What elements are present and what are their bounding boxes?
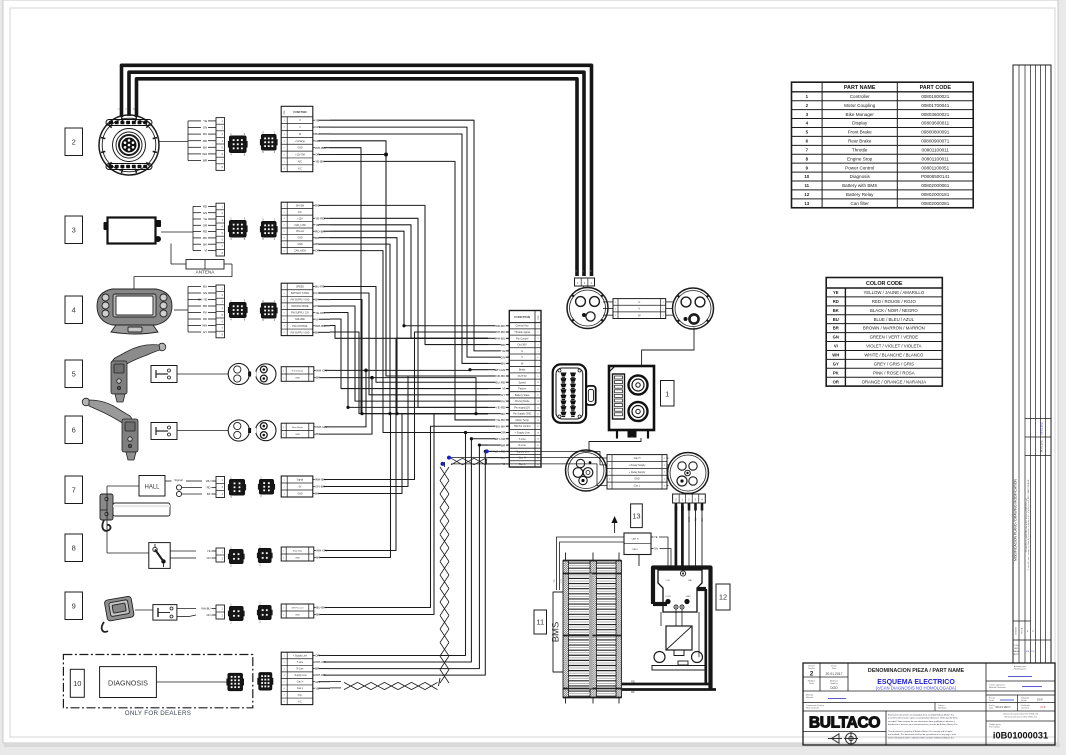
svg-text:GREEN / VERT / VERDE: GREEN / VERT / VERDE bbox=[870, 335, 919, 340]
svg-text:N.C.: N.C. bbox=[298, 168, 303, 170]
svg-text:Driving Mode: Driving Mode bbox=[515, 400, 530, 403]
svg-text:YE-BK: YE-BK bbox=[496, 418, 506, 422]
svg-text:U: U bbox=[574, 270, 578, 272]
svg-text:FECHA: FECHA bbox=[1021, 627, 1024, 634]
svg-text:WH: WH bbox=[832, 353, 839, 358]
svg-text:5V: 5V bbox=[299, 487, 302, 489]
svg-text:(c/CAN DIAGNOSIS NO HOMOLOGADA: (c/CAN DIAGNOSIS NO HOMOLOGADA) bbox=[876, 686, 957, 691]
svg-text:VIOLET / VIOLET / VIOLETA: VIOLET / VIOLET / VIOLETA bbox=[866, 344, 922, 349]
svg-text:+ Relay Supply: + Relay Supply bbox=[629, 471, 646, 474]
svg-text:2: 2 bbox=[664, 465, 665, 467]
svg-text:BROWN / MARRON / MARRON: BROWN / MARRON / MARRON bbox=[863, 326, 925, 331]
svg-text:PK: PK bbox=[203, 311, 207, 315]
svg-text:Drawn: Drawn bbox=[1021, 700, 1027, 702]
svg-text:Hardness: Hardness bbox=[938, 708, 947, 710]
svg-text:Can L: Can L bbox=[634, 485, 641, 488]
svg-text:SPEED: SPEED bbox=[296, 286, 304, 288]
svg-text:11: 11 bbox=[536, 618, 544, 627]
svg-text:36V-SW: 36V-SW bbox=[296, 205, 305, 207]
svg-text:3: 3 bbox=[537, 338, 538, 340]
svg-text:7: 7 bbox=[537, 363, 538, 365]
svg-text:GN: GN bbox=[203, 291, 208, 295]
svg-text:Modif by: Modif by bbox=[830, 683, 838, 685]
svg-text:RED / ROUGE / ROJO: RED / ROUGE / ROJO bbox=[872, 299, 917, 304]
svg-text:SW Pw cont: SW Pw cont bbox=[292, 606, 304, 609]
svg-text:-BAT: -BAT bbox=[688, 579, 693, 582]
svg-text:+12V SW: +12V SW bbox=[295, 155, 306, 157]
svg-text:VI: VI bbox=[502, 387, 505, 391]
svg-text:GN: GN bbox=[833, 335, 839, 340]
svg-text:CAN L: CAN L bbox=[632, 548, 639, 551]
svg-text:GN: GN bbox=[206, 556, 210, 560]
svg-text:6: 6 bbox=[537, 357, 538, 359]
svg-text:DGO: DGO bbox=[1037, 698, 1043, 702]
svg-text:U: U bbox=[638, 300, 640, 304]
svg-text:VERSION: VERSION bbox=[1016, 626, 1018, 635]
svg-text:MODIFICACION PLANO / DRAWING M: MODIFICACION PLANO / DRAWING MODIFICATIO… bbox=[1014, 478, 1018, 560]
svg-text:y contiene informacion sujeta: y contiene informacion sujeta a la propi… bbox=[888, 717, 959, 720]
svg-text:CAN H: CAN H bbox=[632, 538, 639, 541]
svg-text:PW SUPPLY GND: PW SUPPLY GND bbox=[291, 300, 310, 302]
svg-text:Engine Stop: Engine Stop bbox=[847, 156, 872, 161]
svg-text:2: 2 bbox=[609, 465, 610, 467]
svg-text:10: 10 bbox=[804, 174, 809, 179]
svg-text:5: 5 bbox=[609, 485, 610, 487]
svg-text:Diagnosis: Diagnosis bbox=[850, 174, 871, 179]
svg-text:Pw supply12V: Pw supply12V bbox=[514, 406, 530, 409]
svg-text:4: 4 bbox=[609, 479, 610, 481]
svg-text:HALL: HALL bbox=[144, 485, 160, 491]
svg-text:Material/Treatment: Material/Treatment bbox=[989, 686, 1006, 689]
svg-text:00800900071: 00800900071 bbox=[921, 139, 950, 144]
svg-text:2: 2 bbox=[72, 137, 76, 146]
svg-text:00801800021: 00801800021 bbox=[921, 94, 950, 99]
svg-text:Throttle signal: Throttle signal bbox=[514, 331, 530, 334]
svg-text:2: 2 bbox=[537, 332, 538, 334]
svg-text:00801100051: 00801100051 bbox=[921, 165, 949, 170]
svg-text:20.01.2017: 20.01.2017 bbox=[826, 672, 843, 676]
svg-text:4: 4 bbox=[537, 344, 538, 346]
svg-text:3: 3 bbox=[72, 225, 76, 234]
svg-text:not be released to other s wit: not be released to other s without writt… bbox=[888, 736, 955, 739]
svg-text:El presente documento es propi: El presente documento es propiedad de la… bbox=[888, 714, 955, 717]
svg-text:13: 13 bbox=[804, 201, 809, 206]
svg-text:CODE: CODE bbox=[1014, 645, 1020, 647]
svg-text:PW SUPPLY 12V: PW SUPPLY 12V bbox=[291, 313, 309, 315]
svg-text:1: 1 bbox=[664, 458, 665, 460]
svg-text:00802000181: 00802000181 bbox=[921, 192, 950, 197]
svg-text:Throttle: Throttle bbox=[852, 147, 868, 152]
svg-text:PINK / ROSE / ROSA: PINK / ROSE / ROSA bbox=[873, 370, 915, 375]
svg-text:N.C.: N.C. bbox=[298, 695, 303, 697]
svg-text:DIAGNOSIS: DIAGNOSIS bbox=[108, 679, 148, 688]
svg-text:OUT 5V: OUT 5V bbox=[518, 375, 527, 378]
svg-text:BU-RD: BU-RD bbox=[496, 380, 507, 384]
svg-text:- Supply Line: - Supply Line bbox=[293, 675, 307, 677]
svg-text:VI: VI bbox=[834, 344, 838, 349]
svg-text:BMS: BMS bbox=[551, 622, 562, 643]
svg-text:SW Pw control: SW Pw control bbox=[514, 425, 531, 428]
svg-text:BU: BU bbox=[501, 362, 505, 366]
svg-text:3: 3 bbox=[609, 472, 610, 474]
svg-text:Can L: Can L bbox=[297, 688, 304, 690]
svg-text:WHITE / BLANCHE / BLANCO: WHITE / BLANCHE / BLANCO bbox=[864, 353, 924, 358]
svg-text:YELLOW / JAUNE / AMARILLO: YELLOW / JAUNE / AMARILLO bbox=[864, 290, 925, 295]
svg-text:RD: RD bbox=[501, 343, 506, 347]
svg-text:36V-out: 36V-out bbox=[296, 230, 304, 233]
svg-text:OR-BK: OR-BK bbox=[495, 374, 506, 378]
svg-text:Can H: Can H bbox=[519, 457, 526, 460]
svg-text:4: 4 bbox=[664, 479, 665, 481]
svg-text:GND: GND bbox=[297, 494, 302, 496]
svg-text:distribucion a terceros sin el: distribucion a terceros sin el permiso p… bbox=[888, 723, 958, 726]
svg-text:+ Supply Line: + Supply Line bbox=[293, 655, 308, 657]
svg-text:GN: GN bbox=[203, 211, 208, 215]
svg-text:00803600011: 00803600011 bbox=[921, 121, 949, 126]
svg-text:NAME: NAME bbox=[1014, 650, 1020, 653]
svg-text:1: 1 bbox=[609, 458, 610, 460]
svg-text:5: 5 bbox=[72, 369, 76, 378]
svg-text:Control Key: Control Key bbox=[516, 325, 530, 328]
svg-text:+Vcharge: +Vcharge bbox=[295, 140, 306, 143]
svg-text:BU: BU bbox=[833, 317, 839, 322]
svg-text:GN: GN bbox=[654, 547, 658, 551]
svg-text:YE: YE bbox=[203, 217, 207, 221]
svg-text:BU-BK: BU-BK bbox=[496, 424, 506, 428]
svg-text:10: 10 bbox=[537, 382, 539, 384]
svg-text:PART CODE: PART CODE bbox=[920, 85, 952, 91]
svg-text:+OUT: +OUT bbox=[665, 596, 672, 598]
svg-text:YE: YE bbox=[207, 549, 211, 553]
svg-text:WH: WH bbox=[206, 479, 211, 483]
svg-text:10: 10 bbox=[73, 679, 81, 688]
svg-text:Motor Temp: Motor Temp bbox=[516, 419, 530, 422]
svg-text:18: 18 bbox=[537, 432, 539, 434]
svg-text:9: 9 bbox=[72, 601, 76, 610]
svg-text:YE: YE bbox=[553, 579, 556, 583]
svg-text:YE: YE bbox=[501, 349, 505, 353]
svg-text:PIN: PIN bbox=[538, 315, 540, 319]
svg-text:P0806500141: P0806500141 bbox=[921, 174, 950, 179]
svg-text:Battery State: Battery State bbox=[515, 394, 530, 397]
svg-text:BK: BK bbox=[203, 242, 207, 246]
svg-text:RD-BK: RD-BK bbox=[496, 324, 507, 328]
svg-text:V: V bbox=[638, 307, 640, 311]
svg-text:R-Line: R-Line bbox=[297, 669, 304, 671]
svg-text:Pw Control: Pw Control bbox=[516, 337, 529, 340]
svg-text:BR: BR bbox=[833, 326, 839, 331]
svg-text:12: 12 bbox=[537, 395, 539, 397]
svg-text:BLUE / BLEU / AZUL: BLUE / BLEU / AZUL bbox=[874, 317, 915, 322]
svg-text:BLACK / NOIR / NEGRO: BLACK / NOIR / NEGRO bbox=[870, 308, 918, 313]
svg-text:Out 36V: Out 36V bbox=[518, 344, 528, 347]
svg-text:T-Line: T-Line bbox=[297, 662, 304, 664]
svg-text:Pw Supply GND: Pw Supply GND bbox=[513, 413, 531, 416]
svg-text:BK: BK bbox=[631, 690, 635, 694]
svg-text:Can H: Can H bbox=[634, 457, 641, 460]
svg-text:FUNCTION: FUNCTION bbox=[514, 315, 530, 319]
svg-text:Front Brake: Front Brake bbox=[848, 130, 872, 135]
svg-text:GN: GN bbox=[501, 355, 506, 359]
svg-text:BK: BK bbox=[203, 236, 207, 240]
svg-text:sociedad. Todo receptor de est: sociedad. Todo receptor de este document… bbox=[888, 720, 956, 723]
svg-text:+ Power Supply: + Power Supply bbox=[629, 464, 647, 467]
svg-text:V: V bbox=[125, 108, 129, 110]
svg-text:Bike Manager: Bike Manager bbox=[846, 112, 875, 117]
svg-text:O.P: O.P bbox=[1040, 705, 1045, 709]
svg-text:T-Line: T-Line bbox=[519, 438, 527, 441]
svg-text:PK: PK bbox=[833, 370, 839, 375]
svg-text:GND: GND bbox=[634, 478, 640, 481]
svg-text:GN: GN bbox=[203, 126, 208, 130]
svg-text:GND: GND bbox=[297, 148, 302, 150]
svg-text:WH-BK: WH-BK bbox=[495, 330, 506, 334]
svg-text:Motor Coupling: Motor Coupling bbox=[844, 103, 876, 108]
svg-text:PIN: PIN bbox=[284, 110, 286, 114]
svg-text:00803600021: 00803600021 bbox=[921, 112, 950, 117]
svg-text:1: 1 bbox=[665, 390, 669, 399]
svg-text:GND: GND bbox=[297, 238, 302, 240]
svg-text:Finishing para: Finishing para bbox=[1014, 669, 1027, 671]
svg-text:2: 2 bbox=[810, 671, 814, 678]
svg-text:BK-YE: BK-YE bbox=[198, 298, 207, 302]
svg-text:YE: YE bbox=[833, 290, 839, 295]
svg-text:U: U bbox=[521, 350, 523, 353]
svg-text:BULTACO: BULTACO bbox=[809, 715, 881, 732]
svg-text:GND: GND bbox=[295, 557, 300, 559]
svg-text:Scale: Scale bbox=[989, 700, 995, 702]
svg-text:Failure: Failure bbox=[518, 388, 526, 391]
svg-text:N.C.: N.C. bbox=[298, 701, 303, 703]
svg-text:Tolerancias generales ISO 2768: Tolerancias generales ISO 2768 -mk bbox=[1003, 713, 1039, 716]
svg-text:Eng Stop: Eng Stop bbox=[293, 549, 303, 552]
svg-text:WH-BU: WH-BU bbox=[495, 337, 505, 341]
svg-text:ANTENA: ANTENA bbox=[196, 270, 216, 275]
svg-text:This document is property of B: This document is property of Bultaco Mot… bbox=[888, 730, 952, 733]
svg-text:15: 15 bbox=[537, 414, 539, 416]
svg-text:RD: RD bbox=[207, 486, 211, 490]
svg-text:Controller: Controller bbox=[850, 94, 870, 99]
svg-text:YE: YE bbox=[654, 535, 658, 539]
svg-text:24.01.2017: 24.01.2017 bbox=[1040, 439, 1044, 453]
svg-text:N.C.: N.C. bbox=[298, 212, 303, 214]
svg-text:PART NAME: PART NAME bbox=[844, 85, 876, 91]
svg-text:00801100011: 00801100011 bbox=[922, 156, 950, 161]
svg-text:20: 20 bbox=[537, 445, 539, 447]
svg-text:BK: BK bbox=[203, 145, 207, 149]
svg-text:6: 6 bbox=[72, 425, 76, 434]
svg-text:GN: GN bbox=[560, 579, 563, 583]
svg-text:R-Line: R-Line bbox=[518, 444, 526, 447]
svg-text:1: 1 bbox=[537, 326, 538, 328]
svg-text:7: 7 bbox=[72, 485, 76, 494]
svg-text:DENOMINACION PIEZA / PART NAME: DENOMINACION PIEZA / PART NAME bbox=[868, 668, 965, 674]
svg-text:Signal: Signal bbox=[297, 480, 304, 482]
svg-text:09.01.2017: 09.01.2017 bbox=[995, 705, 1010, 709]
svg-text:Part number: Part number bbox=[989, 726, 1000, 729]
svg-text:Can filter: Can filter bbox=[851, 201, 870, 206]
svg-text:00802000061: 00802000061 bbox=[921, 183, 950, 188]
svg-text:17: 17 bbox=[537, 426, 539, 428]
svg-text:00802000281: 00802000281 bbox=[921, 201, 950, 206]
svg-text:WH: WH bbox=[202, 152, 207, 156]
svg-text:BK: BK bbox=[207, 492, 211, 496]
svg-text:PW CONTROL: PW CONTROL bbox=[292, 326, 308, 328]
svg-text:09.01.2017: 09.01.2017 bbox=[1040, 421, 1044, 435]
svg-text:Rear Brake: Rear Brake bbox=[292, 426, 304, 429]
svg-text:GND: GND bbox=[295, 434, 300, 436]
svg-text:OR: OR bbox=[833, 379, 839, 384]
svg-text:VI: VI bbox=[204, 249, 207, 253]
svg-text:RD: RD bbox=[631, 680, 635, 684]
svg-text:WH-GN: WH-GN bbox=[494, 368, 505, 372]
svg-text:GY: GY bbox=[203, 330, 207, 334]
svg-text:PW SUPPLY GND: PW SUPPLY GND bbox=[291, 332, 310, 334]
svg-text:00801700041: 00801700041 bbox=[921, 103, 950, 108]
svg-text:BK: BK bbox=[833, 308, 839, 313]
svg-text:YE: YE bbox=[203, 119, 207, 123]
svg-text:00800800091: 00800800091 bbox=[921, 130, 950, 135]
svg-text:Checked: Checked bbox=[1021, 708, 1029, 710]
svg-text:COLOR CODE: COLOR CODE bbox=[866, 281, 903, 287]
svg-text:Battery with BMS: Battery with BMS bbox=[842, 183, 877, 188]
svg-text:VI: VI bbox=[315, 317, 318, 321]
svg-text:5: 5 bbox=[537, 351, 538, 353]
svg-text:RD: RD bbox=[833, 299, 839, 304]
svg-text:FUNCTION: FUNCTION bbox=[294, 111, 307, 114]
svg-text:APPR: APPR bbox=[1014, 653, 1020, 656]
svg-text:ORANGE / ORANGE / NARANJA: ORANGE / ORANGE / NARANJA bbox=[862, 379, 927, 384]
svg-text:00801100011: 00801100011 bbox=[922, 147, 950, 152]
svg-text:9: 9 bbox=[537, 376, 538, 378]
svg-text:Power Control: Power Control bbox=[845, 165, 874, 170]
svg-text:OR: OR bbox=[501, 431, 506, 435]
svg-text:Heat treatment: Heat treatment bbox=[806, 707, 820, 710]
svg-text:19: 19 bbox=[537, 439, 539, 441]
svg-text:YE-RD: YE-RD bbox=[496, 406, 506, 410]
svg-text:12: 12 bbox=[719, 593, 727, 602]
svg-text:are involved. This document sh: are involved. This document shall not be… bbox=[888, 733, 956, 736]
svg-text:WH: WH bbox=[202, 324, 207, 328]
svg-text:16: 16 bbox=[537, 420, 539, 422]
svg-text:3: 3 bbox=[664, 472, 665, 474]
svg-text:8: 8 bbox=[537, 370, 538, 372]
svg-text:General tolerances ISO 2768 -m: General tolerances ISO 2768 -mk bbox=[1004, 716, 1037, 719]
svg-text:Signal: Signal bbox=[174, 478, 183, 482]
svg-text:Rear Brake: Rear Brake bbox=[848, 139, 872, 144]
svg-text:BU: BU bbox=[203, 132, 207, 136]
svg-text:4: 4 bbox=[72, 305, 76, 314]
svg-text:ONLY FOR DEALERS: ONLY FOR DEALERS bbox=[125, 710, 191, 717]
svg-text:C on b ld c onn r mova ti ir p: C on b ld c onn r mova ti ir p laca; fro… bbox=[1027, 479, 1030, 570]
svg-text:GY: GY bbox=[501, 393, 505, 397]
svg-text:CAN_HIGH: CAN_HIGH bbox=[294, 250, 306, 253]
svg-text:+ Supply Line: + Supply Line bbox=[515, 432, 531, 435]
svg-text:+12V: +12V bbox=[297, 218, 303, 220]
svg-text:CAN_LOW: CAN_LOW bbox=[294, 224, 306, 227]
svg-text:GND: GND bbox=[295, 614, 300, 616]
svg-text:Can H: Can H bbox=[297, 682, 304, 684]
svg-text:13: 13 bbox=[537, 401, 539, 403]
svg-text:GND: GND bbox=[295, 378, 300, 380]
svg-text:11: 11 bbox=[804, 183, 809, 188]
svg-text:Brake: Brake bbox=[519, 369, 526, 372]
svg-text:U: U bbox=[117, 108, 121, 110]
svg-text:Material: Material bbox=[806, 696, 814, 699]
svg-text:GND: GND bbox=[297, 244, 302, 246]
svg-text:BATTERY STATE: BATTERY STATE bbox=[291, 292, 310, 295]
svg-text:GREY / GRIS / GRIS: GREY / GRIS / GRIS bbox=[874, 361, 914, 366]
svg-text:+BAT: +BAT bbox=[685, 595, 691, 598]
svg-text:5: 5 bbox=[664, 485, 665, 487]
svg-text:FAILURE: FAILURE bbox=[295, 318, 305, 321]
svg-text:GN: GN bbox=[206, 613, 210, 617]
svg-text:BU: BU bbox=[203, 285, 207, 289]
svg-text:BR: BR bbox=[501, 443, 506, 447]
svg-text:N/C: N/C bbox=[298, 161, 302, 163]
svg-text:DRIVING MODE: DRIVING MODE bbox=[291, 306, 309, 308]
svg-text:V: V bbox=[581, 270, 585, 272]
svg-text:13: 13 bbox=[632, 511, 640, 520]
svg-text:DGO: DGO bbox=[830, 686, 838, 690]
svg-text:i0B01000031: i0B01000031 bbox=[993, 731, 1048, 741]
svg-text:- Supply Line: - Supply Line bbox=[515, 450, 530, 453]
svg-text:GY: GY bbox=[833, 361, 839, 366]
svg-text:14: 14 bbox=[537, 407, 539, 409]
svg-text:Speed: Speed bbox=[519, 381, 527, 384]
svg-text:Can L: Can L bbox=[519, 463, 526, 466]
svg-text:8: 8 bbox=[72, 543, 76, 552]
svg-text:Front Brake: Front Brake bbox=[292, 369, 304, 372]
svg-text:WH-OR: WH-OR bbox=[494, 437, 506, 441]
svg-text:DATE: DATE bbox=[1014, 647, 1020, 650]
svg-text:Battery Relay: Battery Relay bbox=[846, 192, 874, 197]
svg-text:11: 11 bbox=[537, 388, 539, 390]
svg-text:Display: Display bbox=[852, 121, 868, 126]
svg-text:WH-BU: WH-BU bbox=[201, 607, 210, 611]
svg-text:Scale: Scale bbox=[809, 683, 815, 685]
svg-text:12: 12 bbox=[804, 192, 809, 197]
